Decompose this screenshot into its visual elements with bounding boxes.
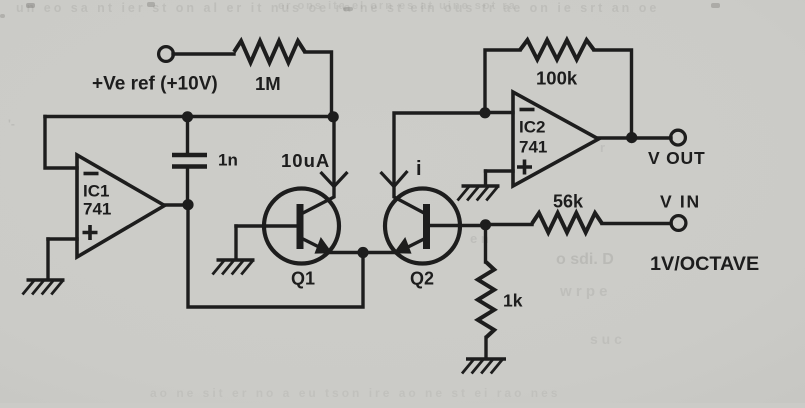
- svg-text:w r p e: w r p e: [559, 283, 608, 300]
- emitter Q1: [302, 239, 324, 250]
- label IC2: [519, 118, 545, 137]
- transistor Q2 circle: [385, 189, 460, 264]
- wire: [486, 223, 532, 226]
- capacitor C1 1n: [172, 155, 207, 167]
- svg-text:741: 741: [83, 200, 111, 219]
- svg-text:+Ve ref (+10V): +Ve ref (+10V): [92, 74, 218, 95]
- label i: [416, 158, 422, 180]
- op-amp U2 IC2 741: [513, 92, 599, 186]
- svg-text:r: r: [600, 140, 605, 155]
- svg-text:'-: '-: [8, 117, 15, 131]
- wire: [46, 239, 49, 278]
- wire base-gnd Q1: [234, 226, 237, 258]
- svg-text:Q1: Q1: [291, 269, 315, 289]
- transistor Q1 circle: [264, 189, 339, 264]
- ground IC1 +input: [23, 280, 65, 295]
- label IC1: [83, 182, 109, 201]
- label Q1: [291, 269, 315, 289]
- resistor R3 56k: [532, 213, 602, 233]
- label 10uA: [281, 150, 330, 171]
- wire: [484, 225, 487, 262]
- label 1n: [218, 151, 238, 170]
- node emitters: [357, 247, 368, 258]
- wire base Q1: [236, 224, 297, 227]
- pin - IC1: [84, 172, 99, 176]
- pin - IC2: [520, 108, 535, 112]
- collector Q2: [394, 113, 485, 214]
- label 56k: [553, 192, 584, 212]
- wire: [186, 117, 189, 154]
- wire: [484, 338, 487, 358]
- wire IC2 output: [598, 136, 671, 139]
- wire bus: [45, 115, 334, 118]
- node IC2 inv input: [479, 107, 490, 118]
- wire feedback up: [485, 50, 520, 113]
- wire: [486, 169, 514, 172]
- terminal V OUT: [671, 130, 686, 145]
- wire feedback bottom: [188, 205, 363, 308]
- wire: [305, 52, 332, 117]
- wire base Q2: [430, 224, 486, 227]
- svg-text:1n: 1n: [218, 151, 238, 170]
- node Q2 base: [480, 219, 491, 230]
- terminal +Ve ref (+10V): [159, 47, 174, 62]
- emitter arrow Q2: [395, 238, 411, 253]
- svg-text:s u c: s u c: [590, 331, 622, 347]
- node IC1 out: [182, 199, 193, 210]
- label V OUT: [648, 148, 705, 168]
- resistor R2 100k: [520, 40, 594, 60]
- wire: [594, 50, 632, 138]
- wire emitter Q1: [328, 251, 363, 254]
- svg-text:ao ne sit er no a eu tson ire: ao ne sit er no a eu tson ire ao ne st e…: [150, 386, 560, 400]
- pin + IC2: [517, 160, 532, 175]
- base bar Q1: [297, 204, 304, 249]
- label 100k: [536, 68, 578, 89]
- svg-text:1k: 1k: [503, 291, 523, 311]
- wire emitter Q2: [363, 251, 398, 254]
- label Q2: [410, 269, 434, 289]
- emitter Q2: [402, 239, 425, 251]
- base bar Q2: [423, 204, 430, 249]
- label 1V/OCTAVE: [650, 253, 759, 275]
- label 741 IC2: [519, 138, 547, 157]
- svg-text:o sdi. D: o sdi. D: [556, 251, 614, 268]
- wire: [602, 222, 671, 225]
- label 741 IC1: [83, 200, 111, 219]
- svg-text:V OUT: V OUT: [648, 148, 705, 168]
- node IC2 out: [626, 132, 637, 143]
- wire: [173, 52, 234, 55]
- svg-text:56k: 56k: [553, 192, 584, 212]
- wire: [48, 237, 77, 240]
- svg-text:Q2: Q2: [410, 269, 434, 289]
- label +Ve ref (+10V): [92, 74, 218, 95]
- wire: [45, 117, 77, 169]
- ground Q1 base: [213, 260, 255, 275]
- label V IN: [660, 192, 701, 212]
- wire: [186, 169, 189, 205]
- current arrow 10uA: [321, 172, 348, 187]
- svg-text:741: 741: [519, 138, 547, 157]
- resistor R1 1M: [234, 41, 305, 63]
- current arrow i: [381, 171, 408, 187]
- resistor R4 1k: [478, 262, 494, 338]
- label 1M: [255, 73, 281, 94]
- svg-text:V IN: V IN: [660, 192, 701, 212]
- svg-text:10uA: 10uA: [281, 150, 330, 171]
- terminal V IN: [671, 216, 686, 231]
- svg-text:IC2: IC2: [519, 118, 545, 137]
- ground IC2 +input: [458, 186, 500, 201]
- svg-text:i: i: [416, 158, 422, 180]
- emitter arrow Q1: [315, 238, 331, 253]
- node collector Q1: [328, 111, 339, 122]
- wire: [485, 111, 513, 114]
- wire IC1 output: [164, 203, 188, 206]
- node cap-top: [182, 111, 193, 122]
- svg-text:1M: 1M: [255, 73, 281, 94]
- collector Q1: [302, 117, 334, 214]
- label 1k: [503, 291, 523, 311]
- svg-text:100k: 100k: [536, 68, 578, 89]
- op-amp U1 IC1 741: [77, 155, 165, 257]
- svg-text:IC1: IC1: [83, 182, 109, 201]
- pin + IC1: [83, 225, 98, 240]
- svg-text:er ons ita el orn es at uine s: er ons ita el orn es at uine sot ra: [278, 0, 517, 12]
- svg-text:1V/OCTAVE: 1V/OCTAVE: [650, 253, 759, 275]
- wire: [484, 171, 487, 184]
- ground R4: [462, 359, 506, 374]
